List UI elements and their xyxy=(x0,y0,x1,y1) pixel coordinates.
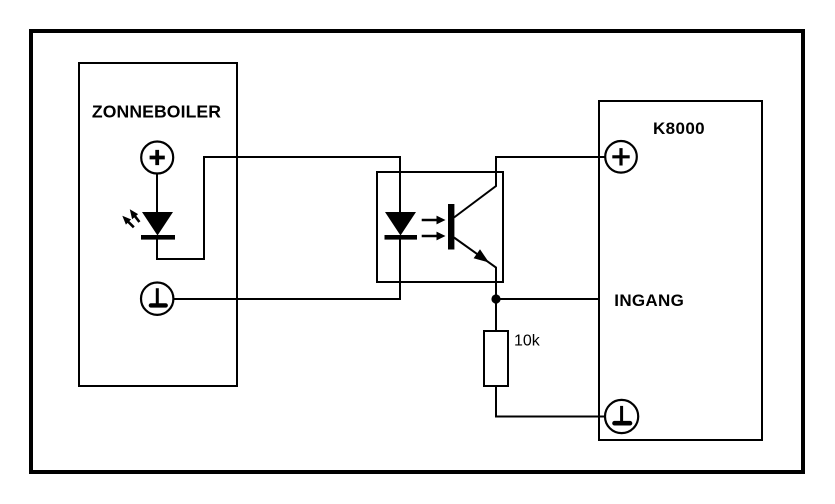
LED light emission arrows xyxy=(122,209,139,227)
terminal ground (K8000) xyxy=(605,400,638,433)
wire optocoupler cathode to zonneboiler ground xyxy=(174,240,400,300)
svg-text:ZONNEBOILER: ZONNEBOILER xyxy=(92,102,221,122)
svg-text:K8000: K8000 xyxy=(653,119,705,138)
optocoupler U1 package xyxy=(377,172,503,282)
wire + terminal to LED anode xyxy=(156,173,158,213)
terminal ground (zonneboiler) xyxy=(141,283,173,315)
wire junction to INGANG xyxy=(496,298,599,300)
LED D1 (zonneboiler indicator) xyxy=(141,212,175,240)
wire resistor to K8000 ground xyxy=(496,386,605,417)
svg-text:INGANG: INGANG xyxy=(614,291,684,310)
optocoupler light arrows xyxy=(422,216,446,241)
wire LED cathode to optocoupler anode xyxy=(157,157,400,259)
optocoupler LED xyxy=(385,212,418,240)
phototransistor base bar xyxy=(448,204,454,250)
resistor R1 10k xyxy=(484,331,508,386)
terminal + (K8000) xyxy=(605,141,637,173)
terminal + (zonneboiler) xyxy=(141,142,173,174)
zonneboiler block xyxy=(79,63,237,386)
phototransistor collector wire to K8000 + xyxy=(454,157,605,218)
K8000 block xyxy=(599,101,762,440)
phototransistor emitter xyxy=(454,238,496,300)
svg-text:10k: 10k xyxy=(514,333,541,350)
junction node (emitter / resistor / ingang) xyxy=(491,294,500,303)
wire junction to resistor xyxy=(495,299,497,331)
